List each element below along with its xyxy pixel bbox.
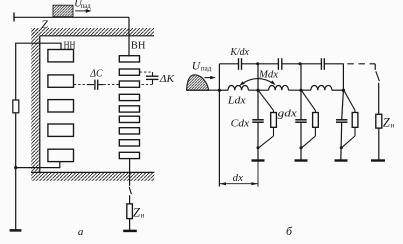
node dot top rail 2: [256, 62, 259, 65]
wire wave to node 1: [187, 89, 220, 91]
capacitor dK dashed lead top: [140, 71, 153, 73]
svg-text:н: н: [391, 122, 395, 130]
junction dot branch 4: [340, 146, 343, 149]
ground bar left: [10, 229, 22, 232]
svg-text:Mdx: Mdx: [258, 70, 278, 81]
dimension dx arrows: [219, 182, 258, 185]
top rail segment 1: [219, 63, 238, 65]
mutual inductance arc Mdx: [239, 79, 275, 86]
svg-text:ΔC: ΔC: [89, 68, 103, 79]
wire mid rail node4: [332, 89, 344, 91]
top rail segment 4: [324, 63, 344, 65]
resistor ZH (a): [127, 204, 133, 219]
HH winding coil 5: [48, 149, 74, 161]
ground bar branch 4: [335, 159, 348, 161]
terminal tick left end of line Z: [13, 13, 15, 22]
wire mid rail node3: [289, 89, 311, 91]
inductor Ldx 1: [219, 85, 248, 90]
wire mid rail node2: [248, 89, 268, 91]
shunt branch 3: Cdx: [295, 90, 306, 160]
resistor ZH (b): [376, 114, 382, 128]
switch (b): [375, 64, 379, 115]
node dot mid 3: [299, 89, 302, 92]
inductor Ldx 2: [269, 85, 289, 90]
ground bar branch 2: [252, 159, 265, 161]
shunt branch 4: Cdx: [336, 90, 347, 160]
capacitor K/dx 1: [239, 58, 242, 70]
wire resistor to ground (b): [378, 128, 380, 160]
node dot mid 2: [256, 89, 259, 92]
svg-text:ВН: ВН: [131, 40, 146, 52]
wire vertical node2 top: [257, 64, 259, 90]
svg-text:dx: dx: [233, 173, 244, 184]
tank wall left (hatched): [31, 28, 40, 172]
junction dot branch 2: [257, 146, 260, 149]
shunt branch 3: gdx resistor: [302, 91, 319, 147]
wire vertical node4 top: [342, 64, 344, 90]
wire vertical node1 (with dx extension): [218, 64, 220, 187]
capacitor dC dashed lead right: [103, 84, 119, 86]
node dot top rail 3: [299, 62, 302, 65]
svg-text:Cdx: Cdx: [231, 118, 250, 129]
shunt branch 2: gdx resistor: [259, 91, 277, 147]
label U_pad (a): [74, 0, 91, 10]
BH winding coil 7: [119, 128, 139, 134]
svg-text:U: U: [192, 60, 201, 72]
node dot mid 4: [342, 89, 345, 92]
wire resistor to ground (a): [129, 219, 131, 230]
capacitor dK: [146, 72, 159, 84]
wire vertical node3 top: [300, 64, 302, 90]
tank wall top (hatched): [31, 28, 154, 36]
top rail segment 2: [242, 63, 279, 65]
svg-text:ΔK: ΔK: [159, 73, 175, 85]
incident wave front (b): [187, 75, 209, 90]
ground bar ZH (b): [371, 159, 385, 161]
dashed continuation of top rail: [347, 63, 375, 65]
label ZH (a): [133, 206, 145, 220]
BH winding coil 3: [119, 81, 139, 87]
HH winding coil 1: [48, 50, 74, 62]
arrow wave direction (b): [205, 76, 216, 79]
capacitor K/dx 3: [321, 58, 324, 70]
wire HH bottom to ground conductor: [16, 162, 60, 168]
wire HH top to grounded conductor: [16, 43, 61, 100]
junction dot branch 3: [300, 146, 303, 149]
svg-text:gdx: gdx: [278, 108, 297, 119]
HH winding coil 2: [48, 75, 74, 87]
BH winding coil 8: [119, 140, 139, 146]
tank wall bottom (hatched): [31, 172, 154, 180]
svg-text:н: н: [141, 212, 145, 220]
wire BH bottom through tank wall: [129, 159, 131, 186]
switch blade (a): [129, 187, 131, 194]
BH winding coil 4: [119, 94, 139, 100]
capacitor dK dashed lead bottom: [140, 83, 153, 85]
svg-text:пад: пад: [201, 65, 212, 73]
svg-text:K/dx: K/dx: [229, 47, 249, 58]
BH winding coil 1: [119, 56, 139, 62]
top rail segment 3: [282, 63, 322, 65]
resistor on left ground conductor: [13, 100, 19, 113]
shunt branch 4: gdx resistor: [342, 91, 358, 147]
HH winding coil 4: [48, 124, 74, 136]
BH winding coil 6: [119, 116, 139, 122]
svg-text:б: б: [286, 224, 293, 238]
BH winding coil 5: [119, 106, 139, 112]
arrow U_pad (a): [75, 9, 91, 13]
label ZH (b): [383, 116, 395, 130]
svg-text:пад: пад: [81, 3, 92, 10]
BH winding coil 2: [119, 69, 139, 75]
node junction dot left: [14, 166, 17, 169]
inductor Ldx 3: [311, 85, 332, 90]
capacitor K/dx 2: [278, 58, 281, 70]
BH winding coil 9: [119, 152, 139, 158]
shunt branch 2: Cdx: [252, 90, 263, 160]
wire left conductor down: [15, 113, 17, 230]
svg-text:Ldx: Ldx: [227, 95, 246, 106]
label U_pad (b): [192, 60, 212, 72]
wire to load resistor (a): [129, 195, 131, 204]
capacitor dC: [87, 80, 103, 90]
wire from line Z down to BH winding top: [128, 17, 130, 56]
ground bar branch 3: [295, 159, 308, 161]
wire line Z top: [14, 16, 129, 18]
extension below ground branch 2: [257, 161, 259, 187]
svg-text:а: а: [78, 226, 84, 238]
HH winding coil 3: [48, 100, 74, 112]
incident wave block on line Z: [53, 5, 73, 17]
node dot mid 1: [218, 89, 221, 92]
capacitor dC dashed lead left: [74, 84, 87, 86]
ground bar (a): [123, 230, 137, 233]
